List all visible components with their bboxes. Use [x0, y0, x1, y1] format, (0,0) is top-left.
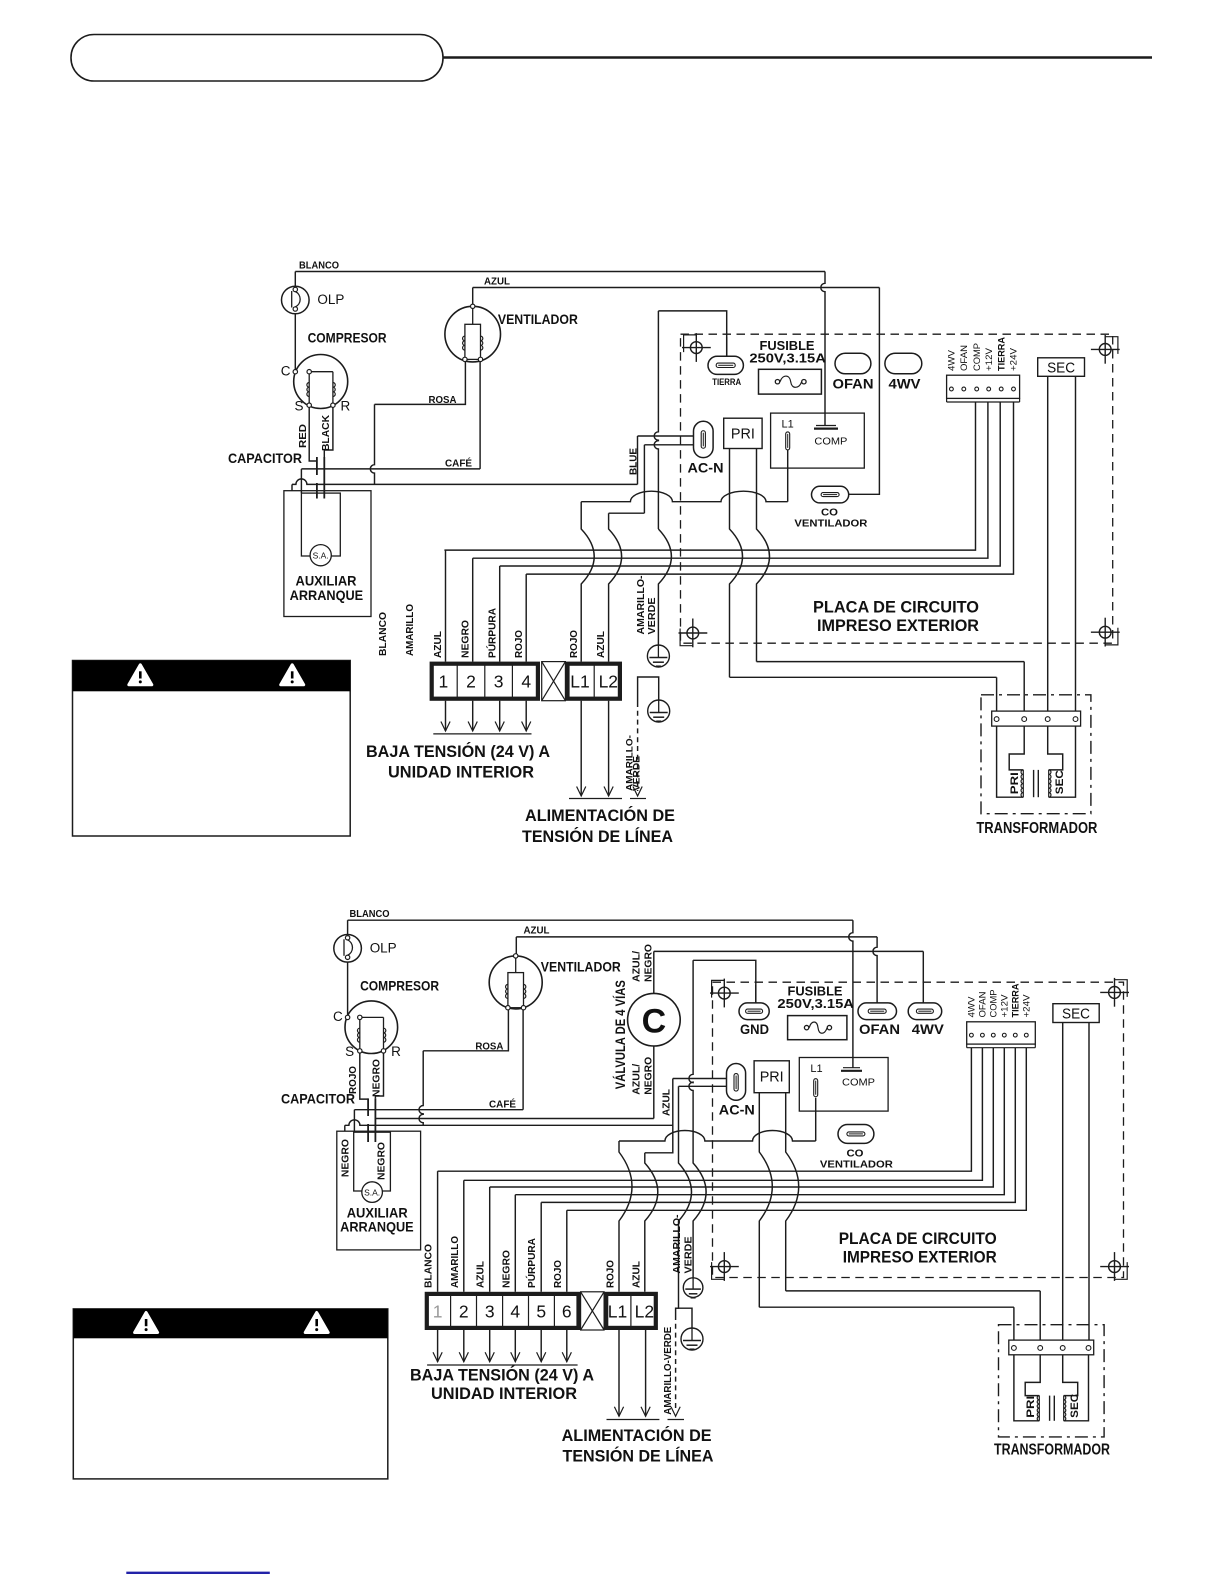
ground symbol gnd (lower): [683, 1278, 703, 1298]
svg-text:AZUL: AZUL: [631, 1260, 643, 1288]
svg-text:C: C: [333, 1009, 343, 1024]
svg-text:ROJO: ROJO: [513, 630, 525, 658]
svg-text:C: C: [281, 364, 291, 379]
svg-text:ROJO: ROJO: [552, 1260, 564, 1288]
terminal block 1-6 low voltage (lower): [427, 1294, 579, 1328]
fan motor VENTILADOR (lower): [489, 954, 621, 1010]
wire terminal block lead 2 AMARILLO (lower): [464, 1048, 983, 1292]
label ALIMENTACION DE TENSION DE LINEA (lower): [562, 1426, 714, 1466]
svg-text:ALIMENTACIÓN DE: ALIMENTACIÓN DE: [525, 806, 675, 825]
transformer secondary winding SEC: [1048, 726, 1076, 797]
svg-text:4WV: 4WV: [889, 376, 922, 392]
wire AZUL NEGRO valve top to 4WV and CO VENTILADOR (lower): [631, 944, 924, 1007]
connector SEC box (upper): [1038, 358, 1085, 377]
wire AC-N upper lead (upper): [638, 435, 702, 437]
warning triangle left (box1): [129, 665, 152, 685]
svg-text:6: 6: [562, 1301, 572, 1321]
transformer secondary winding SEC: [1063, 1355, 1089, 1421]
svg-text:VERDE: VERDE: [632, 756, 642, 791]
svg-text:4WV: 4WV: [947, 350, 957, 371]
label PLACA DE CIRCUITO IMPRESO EXTERIOR (lower): [839, 1229, 997, 1267]
wire terminal block lead 5 PURPURA (lower): [541, 1048, 1015, 1292]
svg-text:NEGRO: NEGRO: [500, 1250, 512, 1288]
svg-text:AMARILLO-: AMARILLO-: [671, 1214, 683, 1274]
svg-text:AZUL/: AZUL/: [631, 951, 643, 982]
svg-text:VÁLVULA DE 4 VÍAS: VÁLVULA DE 4 VÍAS: [613, 980, 628, 1089]
svg-text:L1: L1: [782, 419, 794, 431]
fuse FUSIBLE 250V 3.15A (upper): [727, 337, 826, 394]
svg-text:250V,3.15A: 250V,3.15A: [777, 997, 854, 1011]
terminal GND pill (lower): [739, 985, 769, 1037]
wire CAFE fan to capacitor (lower): [354, 1009, 523, 1111]
transformer pin stub wires: [997, 662, 1025, 712]
terminal AC-N pill (upper): [688, 421, 724, 475]
warning triangle right (box1): [281, 665, 304, 685]
compressor relay box with L1 and COMP terminals (lower): [799, 1058, 888, 1112]
arrows line voltage L1 L2 (lower): [607, 1330, 660, 1420]
wire earth lead crossing bundle (lower): [676, 1162, 692, 1315]
ground symbol earth amarillo-verde (upper): [638, 677, 670, 722]
svg-text:PRI: PRI: [760, 1070, 784, 1086]
wire terminal block lead 2 NEGRO (upper): [473, 402, 988, 661]
svg-text:S: S: [345, 1044, 354, 1059]
overload protector OLP (lower): [334, 935, 397, 963]
svg-text:TRANSFORMADOR: TRANSFORMADOR: [976, 820, 1097, 837]
wire run from relay L1 to terminal L1 ROJO (upper): [581, 450, 788, 502]
transformer core: [1050, 1396, 1055, 1421]
label AMARILLO-VERDE two lines (lower): [671, 1214, 695, 1274]
fan motor VENTILADOR (upper): [445, 304, 578, 362]
wire PRI primary lead B to transformer (lower): [786, 1093, 1040, 1291]
warning box upper: [73, 661, 351, 837]
connector PRI box (upper): [724, 418, 762, 448]
svg-text:BLANCO: BLANCO: [423, 1244, 435, 1288]
wire label AMARILLO-VERDE beside ground wire (upper): [635, 575, 658, 635]
wire CAFE corner into auxiliar arranque box (lower): [353, 1110, 355, 1133]
svg-text:S: S: [294, 399, 303, 414]
label AUXILIAR ARRANQUE (lower): [340, 1205, 414, 1235]
svg-text:ARRANQUE: ARRANQUE: [290, 587, 364, 603]
label BAJA TENSION 24V A UNIDAD INTERIOR (upper): [366, 742, 550, 782]
earth wire AMARILLO-VERDE dashed (upper): [625, 702, 647, 799]
wire OLP to compressor C terminal (lower): [347, 960, 349, 1016]
page header rounded tab: [71, 35, 443, 82]
terminal 4WV pill (upper): [885, 353, 922, 391]
svg-text:AZUL/: AZUL/: [631, 1064, 643, 1095]
mounting hole top-left (lower): [718, 987, 730, 999]
svg-text:OFAN: OFAN: [978, 992, 988, 1018]
svg-text:BLANCO: BLANCO: [377, 612, 389, 656]
svg-text:NEGRO: NEGRO: [376, 1142, 388, 1180]
svg-text:COMP: COMP: [972, 343, 982, 371]
svg-text:UNIDAD INTERIOR: UNIDAD INTERIOR: [431, 1385, 577, 1403]
wire GND lead crossing bundle to ground (lower): [693, 1162, 706, 1278]
svg-text:TENSIÓN DE LÍNEA: TENSIÓN DE LÍNEA: [522, 827, 673, 846]
svg-text:L2: L2: [635, 1301, 654, 1321]
svg-text:CAPACITOR: CAPACITOR: [228, 450, 302, 466]
svg-text:PRI: PRI: [731, 427, 755, 443]
svg-text:S.A.: S.A.: [364, 1188, 380, 1198]
svg-text:2: 2: [459, 1301, 469, 1321]
svg-text:UNIDAD INTERIOR: UNIDAD INTERIOR: [388, 764, 534, 782]
fuse FUSIBLE 250V 3.15A (lower): [777, 985, 854, 1040]
wire ROSA fan to capacitor branch (lower): [419, 1009, 508, 1125]
svg-text:4: 4: [521, 672, 531, 692]
svg-text:+24V: +24V: [1022, 995, 1032, 1018]
wire terminal block lead 3 PURPURA (upper): [500, 402, 1001, 661]
svg-text:NEGRO: NEGRO: [340, 1139, 352, 1177]
relay output CO VENTILADOR pill (upper): [794, 486, 867, 529]
terminal TIERRA pill (upper): [708, 356, 743, 387]
wire L1 line lead crossing bundle (lower): [619, 1141, 632, 1292]
label PLACA DE CIRCUITO IMPRESO EXTERIOR (upper): [813, 598, 979, 636]
wire from R terminal BLACK to capacitor (upper): [320, 407, 333, 457]
compressor relay box with L1 and COMP terminals (upper): [771, 413, 865, 468]
svg-text:S.A.: S.A.: [313, 551, 329, 561]
wire ROSA fan to capacitor branch (upper): [370, 362, 465, 485]
svg-text:BLUE: BLUE: [628, 448, 640, 475]
svg-text:OFAN: OFAN: [859, 1021, 900, 1037]
svg-text:TIERRA: TIERRA: [996, 336, 1006, 371]
svg-text:NEGRO: NEGRO: [643, 944, 655, 982]
svg-text:AZUL: AZUL: [432, 630, 444, 658]
svg-text:PLACA DE CIRCUITO: PLACA DE CIRCUITO: [839, 1229, 997, 1248]
svg-text:1: 1: [439, 672, 449, 692]
wire BLANCO from OLP to compressor relay (lower): [348, 908, 853, 1068]
svg-text:TIERRA: TIERRA: [712, 377, 741, 387]
svg-text:GND: GND: [740, 1021, 769, 1037]
mounting hole top-right (upper): [1099, 344, 1111, 356]
svg-text:IMPRESO EXTERIOR: IMPRESO EXTERIOR: [843, 1248, 997, 1267]
wire terminal block lead 1 BLANCO (lower): [438, 1048, 972, 1292]
ground symbol earth amarillo-verde (lower): [676, 1308, 703, 1350]
svg-text:VENTILADOR: VENTILADOR: [498, 311, 578, 327]
wire CAFE fan to capacitor (upper): [301, 362, 480, 470]
svg-text:BLANCO: BLANCO: [299, 260, 339, 272]
label AUXILIAR ARRANQUE (upper): [290, 573, 364, 603]
svg-text:3: 3: [494, 672, 504, 692]
wire OLP to compressor C terminal (upper): [294, 311, 296, 370]
svg-text:TENSIÓN DE LÍNEA: TENSIÓN DE LÍNEA: [563, 1447, 714, 1466]
overload protector OLP (upper): [282, 286, 345, 314]
svg-text:ROSA: ROSA: [429, 394, 457, 406]
svg-text:PRI: PRI: [1025, 1396, 1037, 1418]
svg-text:VENTILADOR: VENTILADOR: [794, 518, 867, 530]
connector SEC box (lower): [1053, 1004, 1099, 1023]
mounting hole bottom-left (upper): [687, 627, 699, 639]
svg-text:VERDE: VERDE: [646, 598, 658, 635]
wire PRI primary lead A to transformer (lower): [759, 1093, 1014, 1308]
svg-text:SEC: SEC: [1069, 1394, 1081, 1418]
terminal OFAN pill (lower): [858, 1003, 900, 1037]
svg-text:ROJO: ROJO: [568, 630, 580, 658]
relay output CO VENTILADOR pill (lower): [820, 1125, 893, 1171]
svg-text:ROSA: ROSA: [475, 1041, 503, 1053]
transformer TRANSFORMADOR (lower): [0, 0, 1, 1]
svg-text:COMP: COMP: [989, 990, 999, 1018]
wire PRI primary lead A to transformer (upper): [730, 449, 997, 678]
wire SEC secondary leads to transformer (lower): [1063, 1023, 1089, 1341]
start switch S.A. (lower): [362, 1182, 383, 1203]
capacitor CAPACITOR dual-section (upper): [228, 450, 324, 499]
arrows to indoor unit (upper): [433, 701, 531, 734]
transformer primary winding PRI: [997, 726, 1025, 797]
svg-text:ALIMENTACIÓN DE: ALIMENTACIÓN DE: [562, 1426, 712, 1445]
mounting hole bottom-left (lower): [718, 1261, 730, 1273]
wire AZUL from fan motor to OFAN (lower): [516, 925, 877, 1003]
wire L2 line lead crossing bundle (upper): [609, 513, 622, 661]
start switch S.A. (upper): [310, 545, 331, 566]
svg-text:SEC: SEC: [1062, 1006, 1090, 1022]
svg-text:COMP: COMP: [814, 436, 847, 448]
svg-text:TRANSFORMADOR: TRANSFORMADOR: [994, 1442, 1110, 1459]
svg-text:PLACA DE CIRCUITO: PLACA DE CIRCUITO: [813, 598, 979, 617]
wire AC-N upper lead to L2 (lower): [645, 1079, 733, 1163]
arrows line voltage L1 L2 (upper): [569, 701, 622, 799]
svg-text:3: 3: [485, 1301, 495, 1321]
connector pin labels 4WV OFAN COMP +12V TIERRA +24V (lower): [967, 983, 1032, 1018]
terminal block 1-4 low voltage (upper): [432, 664, 538, 699]
svg-text:BAJA TENSIÓN (24 V) A: BAJA TENSIÓN (24 V) A: [410, 1366, 594, 1385]
terminal 4WV pill (lower): [908, 1003, 944, 1037]
wire AZUL from fan motor to CO VENTILADOR (upper): [473, 276, 880, 495]
svg-text:AZUL: AZUL: [524, 925, 551, 937]
pcb connector 6-pin (lower): [967, 1022, 1036, 1048]
wire terminal block lead 4 NEGRO (lower): [515, 1048, 1004, 1292]
svg-text:TIERRA: TIERRA: [1011, 983, 1021, 1018]
wire labels NEGRO NEGRO (lower): [340, 1139, 388, 1180]
svg-text:ARRANQUE: ARRANQUE: [340, 1219, 414, 1235]
svg-text:250V,3.15A: 250V,3.15A: [749, 351, 826, 365]
wire PRI primary lead B to transformer (upper): [757, 449, 1025, 662]
terminal wire labels ROJO AZUL for L1 L2 (upper): [568, 630, 607, 658]
svg-text:SEC: SEC: [1054, 770, 1066, 794]
mounting hole top-right (lower): [1109, 987, 1121, 999]
connector PRI box (lower): [754, 1061, 789, 1093]
dashed outline PLACA DE CIRCUITO IMPRESO EXTERIOR (upper): [681, 334, 1113, 643]
wire TIERRA net vertical to ground (upper): [654, 311, 727, 645]
svg-text:CAFÉ: CAFÉ: [445, 457, 472, 470]
svg-text:4: 4: [510, 1301, 520, 1321]
svg-text:COMP: COMP: [842, 1077, 875, 1089]
svg-text:5: 5: [536, 1301, 546, 1321]
wire AZUL NEGRO valve bottom to capacitor (lower): [375, 1046, 654, 1119]
svg-text:AC-N: AC-N: [688, 460, 724, 476]
wire GND net vertical to ground (lower): [689, 960, 756, 1162]
svg-text:2: 2: [466, 672, 476, 692]
svg-text:BAJA TENSIÓN (24 V) A: BAJA TENSIÓN (24 V) A: [366, 742, 550, 761]
terminal wire labels AZUL NEGRO PURPURA ROJO (upper): [432, 608, 525, 658]
terminal OFAN pill (upper): [833, 353, 874, 391]
svg-text:AMARILLO-VERDE: AMARILLO-VERDE: [662, 1327, 674, 1415]
label ALIMENTACION DE TENSION DE LINEA (upper): [522, 806, 675, 846]
transformer dash-dot enclosure box: [981, 695, 1091, 814]
svg-text:NEGRO: NEGRO: [643, 1057, 655, 1095]
terminal wire labels BLANCO AMARILLO AZUL NEGRO PURPURA ROJO (lower): [423, 1236, 564, 1288]
wire SEC secondary leads to transformer (upper): [1048, 376, 1076, 711]
svg-text:AZUL: AZUL: [661, 1088, 673, 1116]
compressor motor COMPRESOR (upper): [281, 329, 387, 413]
four-way valve VALVULA DE 4 VIAS (lower): [613, 980, 680, 1089]
svg-text:SEC: SEC: [1047, 360, 1075, 376]
wire L2 line lead crossing bundle (lower): [645, 1162, 658, 1292]
svg-text:RED: RED: [297, 424, 309, 448]
svg-text:+24V: +24V: [1009, 348, 1019, 371]
svg-text:+12V: +12V: [984, 348, 994, 371]
terminal block L1 L2 line voltage (lower): [606, 1294, 656, 1328]
auxiliar arranque start device box (upper): [284, 491, 371, 617]
pcb connector 6-pin (upper): [947, 375, 1020, 402]
svg-text:VENTILADOR: VENTILADOR: [820, 1159, 893, 1171]
wire from S terminal ROJO to capacitor (lower): [347, 1053, 368, 1099]
svg-text:L1: L1: [570, 672, 589, 692]
wire terminal block lead 4 ROJO (upper): [526, 402, 1013, 661]
terminal block spacer X cell (upper): [542, 662, 566, 701]
svg-text:AZUL: AZUL: [484, 276, 511, 288]
svg-text:OFAN: OFAN: [833, 376, 874, 392]
dashed outline PLACA DE CIRCUITO IMPRESO EXTERIOR (lower): [713, 982, 1124, 1277]
svg-text:OFAN: OFAN: [959, 345, 969, 371]
svg-text:L2: L2: [599, 672, 618, 692]
transformer core: [1034, 770, 1039, 797]
svg-text:CAPACITOR: CAPACITOR: [281, 1091, 355, 1107]
compressor motor COMPRESOR (lower): [333, 978, 439, 1059]
auxiliar arranque start device box (lower): [337, 1131, 421, 1250]
wire from S terminal RED to capacitor (upper): [297, 407, 317, 461]
wire terminal block lead 3 AZUL (lower): [490, 1048, 994, 1292]
svg-text:AZUL: AZUL: [475, 1260, 487, 1288]
wire AC-N lower lead to earth (lower): [679, 1086, 734, 1162]
svg-text:AMARILLO: AMARILLO: [404, 604, 416, 656]
warning triangle left (box2): [135, 1313, 158, 1333]
svg-text:PÚRPURA: PÚRPURA: [525, 1238, 538, 1288]
svg-text:AMARILLO: AMARILLO: [449, 1236, 461, 1288]
svg-text:VERDE: VERDE: [683, 1237, 695, 1274]
ground symbol tierra (upper): [647, 645, 669, 667]
terminal AC-N pill (lower): [719, 1064, 755, 1118]
transformer pin stub wires: [1014, 1291, 1040, 1340]
svg-text:+12V: +12V: [1000, 995, 1010, 1018]
warning box lower: [73, 1309, 388, 1479]
svg-text:4WV: 4WV: [967, 997, 977, 1018]
mounting hole bottom-right (lower): [1109, 1261, 1121, 1273]
svg-text:1: 1: [433, 1301, 443, 1321]
wire BLUE capacitor to AC-N (upper): [292, 436, 640, 491]
footer rule blue: [126, 1572, 269, 1574]
capacitor CAPACITOR dual-section (lower): [281, 1091, 375, 1143]
transformer primary winding PRI: [1014, 1355, 1040, 1421]
mounting hole top-left (upper): [690, 342, 702, 354]
svg-text:AC-N: AC-N: [719, 1102, 755, 1118]
svg-text:IMPRESO EXTERIOR: IMPRESO EXTERIOR: [817, 616, 979, 635]
terminal block spacer X cell (lower): [581, 1292, 605, 1330]
wire L1 line lead crossing bundle (upper): [581, 502, 594, 662]
svg-text:ROJO: ROJO: [605, 1260, 617, 1288]
transformer TRANSFORMADOR (upper): [0, 0, 1, 1]
svg-text:VENTILADOR: VENTILADOR: [541, 959, 621, 975]
svg-text:OLP: OLP: [370, 941, 397, 956]
svg-text:C: C: [642, 1003, 667, 1041]
transformer dash-dot enclosure box: [999, 1325, 1105, 1437]
svg-text:AZUL: AZUL: [595, 630, 607, 658]
svg-text:PRI: PRI: [1009, 772, 1021, 794]
transformer terminal strip with 4 pins: [1009, 1340, 1094, 1355]
connector pin labels 4WV OFAN COMP +12V TIERRA +24V (upper): [947, 336, 1019, 371]
wire terminal block lead 1 AZUL (upper): [444, 402, 975, 661]
wire AC-N lower lead to L2 run (upper): [609, 445, 701, 513]
wire CAFE corner into auxiliar arranque box (upper): [300, 469, 302, 493]
page header rule line: [443, 56, 1152, 58]
svg-text:R: R: [341, 399, 351, 414]
svg-text:R: R: [391, 1044, 401, 1059]
svg-text:L1: L1: [608, 1301, 627, 1321]
svg-text:CAFÉ: CAFÉ: [489, 1098, 516, 1111]
wire AZUL capacitor to AC-N (lower): [345, 1088, 673, 1131]
transformer terminal strip with 4 pins: [992, 711, 1081, 726]
earth wire AMARILLO-VERDE dashed (lower): [662, 1315, 684, 1420]
svg-text:L1: L1: [810, 1063, 822, 1075]
label BAJA TENSION 24V A UNIDAD INTERIOR (lower): [410, 1366, 594, 1404]
mounting hole bottom-right (upper): [1099, 626, 1111, 638]
terminal wire labels ROJO AZUL for L1 L2 (lower): [605, 1260, 643, 1288]
svg-text:COMPRESOR: COMPRESOR: [308, 329, 387, 345]
wire run from relay L1 to terminal L1 ROJO (lower): [619, 1098, 816, 1141]
arrows to indoor unit (lower): [427, 1330, 577, 1365]
svg-text:COMPRESOR: COMPRESOR: [360, 978, 439, 994]
svg-text:PÚRPURA: PÚRPURA: [485, 608, 498, 658]
wire terminal block lead 6 ROJO (lower): [567, 1048, 1027, 1292]
terminal block L1 L2 line voltage (upper): [568, 664, 620, 699]
svg-text:BLACK: BLACK: [320, 415, 332, 451]
wire from R terminal NEGRO to capacitor (lower): [371, 1053, 384, 1098]
warning triangle right (box2): [305, 1313, 328, 1333]
svg-text:OLP: OLP: [317, 292, 344, 307]
svg-text:NEGRO: NEGRO: [459, 620, 471, 658]
svg-text:BLANCO: BLANCO: [350, 908, 390, 920]
wire BLANCO from OLP to compressor relay (upper): [295, 260, 825, 426]
svg-text:NEGRO: NEGRO: [371, 1059, 383, 1097]
svg-text:4WV: 4WV: [912, 1021, 945, 1037]
